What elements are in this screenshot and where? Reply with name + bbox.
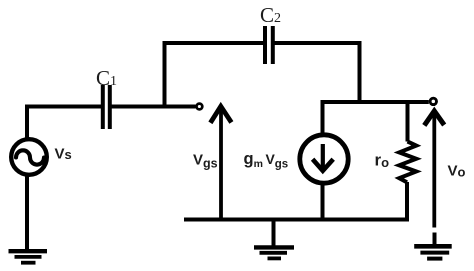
svg-text:C1: C1: [96, 66, 117, 90]
svg-text:Vgs: Vgs: [193, 152, 218, 171]
svg-text:Vs: Vs: [55, 146, 72, 163]
svg-text:gmVgs: gmVgs: [244, 150, 289, 171]
svg-text:Vo: Vo: [448, 163, 466, 180]
svg-text:ro: ro: [375, 151, 390, 171]
svg-text:C2: C2: [260, 3, 281, 27]
